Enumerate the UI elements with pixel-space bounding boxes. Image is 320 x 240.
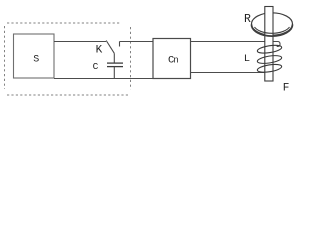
dashed enclosure box [5,23,131,95]
coil L turn 1 [257,44,282,55]
svg-text:L: L [244,53,250,65]
svg-text:S: S [33,55,39,66]
wire Cn to coil top [191,42,281,47]
switch K fixed contact [119,42,121,47]
switch K blade [106,41,114,54]
capacitor C bottom lead [113,67,115,79]
coil L turn 2 [257,54,282,65]
source S box [14,34,55,78]
wire Cn to coil bottom [191,72,266,74]
wire S to switch K [54,41,106,43]
svg-text:K: K [96,44,103,56]
svg-text:R: R [244,13,251,26]
ring R [252,13,293,35]
ring R front arcs [252,25,293,37]
svg-text:C: C [93,61,99,72]
bottom wire S to Cn [54,78,153,80]
svg-text:F: F [283,83,290,95]
svg-text:n: n [173,55,178,65]
wire switch to Cn box [120,41,154,43]
core rod F [265,7,273,82]
capacitor C plates [107,63,123,67]
box Cn [153,39,191,79]
coil L turn 3 [257,63,282,74]
capacitor C top lead [113,53,115,62]
